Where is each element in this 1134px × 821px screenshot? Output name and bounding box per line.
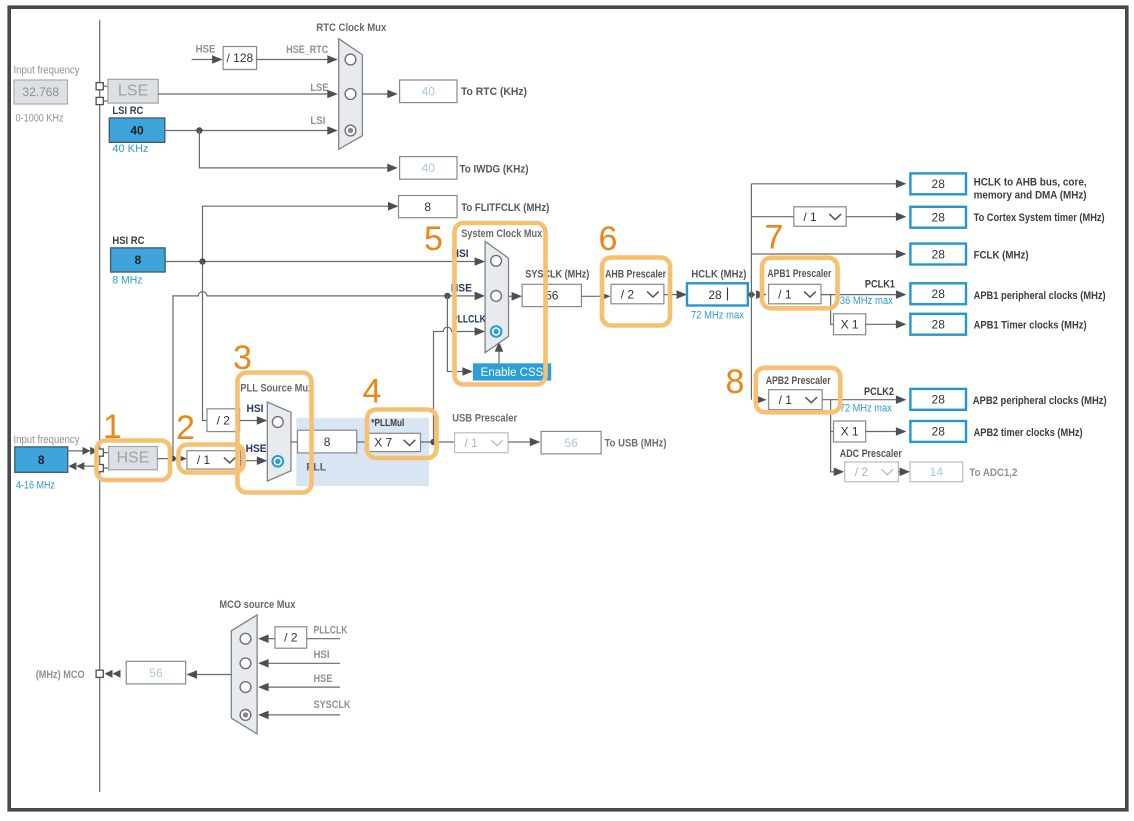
wire to cortex prescaler	[751, 216, 793, 218]
mux PLL Source Mux	[267, 402, 291, 481]
wire HSI to system mux	[165, 261, 475, 263]
pin square HSE top	[96, 449, 103, 456]
svg-text:Enable CSS: Enable CSS	[481, 367, 544, 379]
wire /2 to MCO mux	[269, 638, 276, 640]
wire PLLCLK to system mux	[434, 327, 476, 442]
wire LSI to RTC mux	[165, 130, 328, 132]
arrowhead PLLCLK into system mux	[475, 327, 486, 336]
svg-text:SYSCLK: SYSCLK	[314, 699, 351, 711]
wire APB2 down to X1 and ADC	[831, 400, 836, 472]
radio RTC mux HSE_RTC	[345, 54, 356, 65]
mux RTC Clock Mux	[339, 39, 363, 150]
svg-text:72 MHz max: 72 MHz max	[691, 309, 744, 321]
arrowhead PLLCLK into MCO mux	[258, 634, 269, 643]
svg-text:HSI RC: HSI RC	[112, 235, 144, 247]
arrowhead HSI into PLL mux	[257, 416, 268, 425]
svg-text:5: 5	[424, 220, 443, 258]
radio system mux HSE	[491, 291, 502, 302]
svg-text:Input frequency: Input frequency	[14, 65, 80, 77]
arrowhead APB2 timer output	[896, 427, 907, 436]
svg-text:28: 28	[932, 287, 946, 301]
arrowhead into To USB box	[530, 438, 541, 447]
arrowhead LSE into RTC mux	[327, 90, 338, 99]
box ADC output 14	[910, 462, 963, 482]
svg-text:HSI: HSI	[247, 403, 264, 415]
arrowhead ADC output	[900, 468, 911, 477]
svg-text:/ 1: / 1	[465, 436, 479, 450]
wire CSS arrow to mux bottom	[498, 349, 500, 364]
svg-text:LSI: LSI	[310, 115, 325, 127]
wire X1 to APB2 timer output	[866, 431, 897, 433]
multiplier X1 (APB1 timers)	[834, 314, 866, 335]
box HCLK output 28	[910, 173, 966, 194]
dropdown USB Prescaler /1 disabled	[455, 433, 509, 453]
svg-text:8 MHz: 8 MHz	[112, 275, 142, 287]
arrowhead into APB1 prescaler	[756, 290, 767, 299]
arrowhead crystal out 1	[68, 462, 76, 470]
svg-text:8: 8	[38, 453, 45, 467]
svg-text:HSE: HSE	[246, 443, 267, 455]
wire APB2 to outputs	[822, 399, 897, 401]
arrowhead MCO out 1	[105, 670, 113, 678]
dropdown APB2 Prescaler /1	[769, 390, 823, 410]
wire HSE pin stub top	[103, 452, 108, 454]
wire HSE out stub	[84, 465, 100, 467]
svg-text:/ 2: / 2	[855, 465, 869, 479]
svg-text:HSE: HSE	[314, 673, 333, 685]
highlight 3 PLL Source Mux	[238, 373, 312, 493]
highlight 6 AHB Prescaler	[602, 258, 670, 326]
wire LSE to RTC mux	[158, 93, 328, 95]
svg-text:28: 28	[932, 210, 946, 224]
junction diamond HCLK	[748, 291, 756, 299]
svg-text:SYSCLK (MHz): SYSCLK (MHz)	[525, 268, 589, 280]
svg-text:/ 2: / 2	[284, 631, 298, 645]
radio PLL mux HSE selected	[273, 456, 284, 467]
svg-text:*PLLMul: *PLLMul	[371, 417, 404, 429]
arrowhead FCLK output	[896, 250, 907, 259]
box APB1 peripheral output 28	[910, 283, 966, 304]
highlight 7 APB1 Prescaler	[762, 258, 838, 309]
mux MCO source Mux	[231, 615, 257, 734]
arrowhead APB1 timer output	[896, 320, 907, 329]
svg-text:APB1 Timer clocks (MHz): APB1 Timer clocks (MHz)	[974, 320, 1087, 332]
arrowhead MCO out 2	[113, 670, 121, 678]
junction PLLCLK	[430, 439, 436, 445]
arrowhead LSI into RTC mux	[327, 126, 338, 135]
svg-text:X 1: X 1	[841, 317, 859, 331]
svg-text:Input frequency: Input frequency	[14, 434, 80, 446]
svg-text:8: 8	[324, 435, 331, 449]
wire APB1 to outputs	[821, 294, 897, 296]
arrowhead HSE into PLL mux	[257, 456, 268, 465]
arrowhead HSE into MCO mux	[258, 683, 269, 692]
wire stub into X1 APB2	[831, 431, 834, 433]
radio MCO HSE	[240, 682, 251, 693]
svg-text:4: 4	[363, 373, 382, 411]
wire HSE stub to /128	[192, 59, 213, 61]
svg-text:FCLK (MHz): FCLK (MHz)	[974, 249, 1029, 261]
box To FLITFCLK value 8	[399, 196, 458, 218]
svg-text:72 MHz max: 72 MHz max	[840, 402, 892, 414]
wire ADC prescaler to output	[898, 471, 901, 473]
svg-text:8: 8	[726, 363, 745, 401]
box MCO value 56	[126, 661, 186, 684]
junction HSE to CSS	[444, 293, 450, 299]
radio MCO PLLCLK	[240, 633, 251, 644]
wire prediv to PLL mux	[241, 460, 259, 462]
dropdown APB1 Prescaler /1	[769, 284, 821, 304]
arrowhead into /128	[212, 55, 223, 64]
dropdown PLLMul X7	[367, 433, 421, 451]
wire X1 to APB1 timer output	[866, 323, 897, 325]
divider /2 (MCO)	[275, 627, 307, 648]
dropdown AHB Prescaler /2	[611, 284, 664, 304]
radio RTC mux LSE	[345, 89, 356, 100]
svg-text:X 7: X 7	[374, 436, 392, 450]
highlight 5 System Clock Mux	[455, 223, 546, 385]
svg-text:28: 28	[932, 425, 946, 439]
svg-text:40: 40	[130, 123, 144, 137]
svg-text:8: 8	[135, 253, 142, 267]
box HSE input frequency 8	[15, 447, 68, 472]
radio system mux HSI	[491, 255, 502, 266]
svg-text:56: 56	[149, 666, 163, 680]
wire HSE to MCO mux	[269, 686, 341, 688]
divider /128	[223, 47, 257, 70]
radio RTC mux LSI selected	[345, 125, 356, 136]
box APB2 timer output 28	[910, 421, 966, 442]
arrowhead HSI into MCO mux	[258, 659, 269, 668]
svg-text:/ 2: / 2	[217, 413, 231, 427]
svg-text:APB1 Prescaler: APB1 Prescaler	[767, 268, 832, 280]
box To USB value 56	[541, 431, 601, 454]
wire SYSCLK to MCO mux	[269, 714, 341, 716]
pin square LSE bottom	[96, 97, 103, 104]
arrowhead into APB2 prescaler	[756, 395, 767, 404]
wire HSE rail up and to system mux	[173, 292, 476, 459]
highlight 4 PLLMul	[367, 410, 437, 459]
svg-text:To Cortex System timer (MHz): To Cortex System timer (MHz)	[974, 212, 1105, 224]
radio MCO SYSCLK selected	[240, 710, 251, 721]
multiplier X1 (APB2 timers)	[834, 421, 866, 442]
svg-text:PCLK2: PCLK2	[864, 386, 894, 398]
mux System Clock Mux	[485, 241, 508, 352]
svg-text:USB Prescaler: USB Prescaler	[452, 413, 518, 425]
arrowhead into ADC prescaler	[834, 468, 845, 477]
svg-text:HCLK to AHB bus, core,: HCLK to AHB bus, core,	[974, 177, 1087, 189]
svg-text:LSE: LSE	[310, 82, 328, 94]
arrowhead into SYSCLK box	[512, 292, 522, 301]
junction HSI	[199, 258, 205, 264]
arrowhead SYSCLK into MCO mux	[258, 711, 269, 720]
svg-text:ADC Prescaler: ADC Prescaler	[840, 448, 903, 460]
wire PLLMul to USB prescaler	[421, 441, 455, 443]
arrowhead into To RTC box	[387, 90, 398, 99]
svg-text:/ 128: / 128	[226, 51, 253, 65]
svg-text:4-16 MHz: 4-16 MHz	[16, 480, 55, 492]
svg-text:/ 1: / 1	[803, 210, 817, 224]
wire APB1 down to X1	[831, 295, 834, 325]
wire LSE pin stub2	[103, 100, 108, 102]
svg-text:To IWDG (KHz): To IWDG (KHz)	[460, 163, 529, 175]
svg-text:/ 1: / 1	[778, 287, 792, 301]
box PLL input value 8	[298, 430, 357, 453]
arrowhead HCLK output	[896, 180, 907, 189]
svg-text:PLLCLK: PLLCLK	[314, 625, 348, 637]
arrowhead crystal in 2	[90, 447, 98, 455]
wire HSE to Enable CSS	[447, 296, 463, 372]
svg-text:LSI RC: LSI RC	[112, 105, 143, 117]
svg-text:HSE_RTC: HSE_RTC	[286, 44, 328, 56]
svg-text:APB2 peripheral clocks (MHz): APB2 peripheral clocks (MHz)	[973, 395, 1107, 407]
svg-text:28: 28	[932, 177, 946, 191]
svg-text:32.768: 32.768	[22, 85, 59, 99]
svg-text:56: 56	[564, 436, 578, 450]
box To IWDG value 40	[400, 157, 457, 180]
box FCLK output 28	[910, 244, 966, 265]
svg-text:28: 28	[708, 288, 722, 302]
wire /2 to PLL mux	[240, 420, 258, 422]
dropdown Cortex prescaler /1	[794, 207, 846, 227]
svg-text:HSE: HSE	[196, 44, 216, 56]
svg-text:28: 28	[932, 393, 946, 407]
svg-text:36 MHz max: 36 MHz max	[840, 295, 893, 307]
svg-text:2: 2	[176, 409, 195, 447]
svg-text:PLL Source Mux: PLL Source Mux	[240, 383, 314, 395]
arrowhead into Enable CSS	[462, 367, 473, 376]
wire HSE in stub	[68, 450, 83, 452]
wire HSI to MCO mux	[269, 662, 341, 664]
box HCLK value 28 (editable)	[687, 283, 748, 305]
wire HSE box to prediv	[157, 458, 176, 460]
highlight 8 APB2 Prescaler	[756, 368, 841, 413]
svg-text:System Clock Mux: System Clock Mux	[461, 228, 543, 240]
wire PLL box to PLLMul	[357, 441, 367, 443]
pin square LSE top	[96, 83, 103, 90]
main left vertical rail	[99, 20, 101, 792]
radio system mux PLLCLK selected	[491, 326, 502, 337]
arrowhead into To IWDG box	[387, 164, 398, 173]
box HSI RC 8	[111, 248, 166, 272]
svg-text:(MHz) MCO: (MHz) MCO	[36, 669, 85, 681]
wire LSE pin stubs	[103, 85, 108, 87]
svg-text:14: 14	[930, 465, 944, 479]
svg-text:APB2 timer clocks (MHz): APB2 timer clocks (MHz)	[974, 427, 1083, 439]
arrowhead APB2 peripheral output	[896, 395, 907, 404]
arrowhead into HCLK box	[677, 290, 688, 299]
junction LSI	[196, 127, 202, 133]
svg-text:To USB (MHz): To USB (MHz)	[605, 438, 667, 450]
pin square MCO	[96, 670, 103, 677]
svg-text:RTC Clock Mux: RTC Clock Mux	[316, 22, 387, 34]
wire to HCLK output	[751, 183, 896, 185]
divider /2 (HSI to PLL)	[207, 409, 240, 432]
button Enable CSS	[473, 363, 551, 380]
svg-text:HSE: HSE	[116, 449, 149, 466]
highlight 1 HSE	[97, 441, 171, 481]
wire SYSCLK to AHB prescaler	[581, 295, 601, 297]
svg-text:AHB Prescaler: AHB Prescaler	[605, 268, 667, 280]
box LSE input frequency 32.768	[14, 80, 68, 104]
box APB2 peripheral output 28	[910, 389, 966, 410]
dropdown ADC Prescaler /2 disabled	[845, 462, 899, 482]
svg-text:PLLCLK: PLLCLK	[452, 314, 486, 326]
wire system mux to SYSCLK box	[509, 295, 514, 297]
pin square HSE bottom	[96, 465, 103, 472]
radio MCO HSI	[240, 658, 251, 669]
svg-text:28: 28	[932, 247, 946, 261]
highlight 2 HSE PreDiv	[179, 445, 244, 473]
svg-text:HCLK (MHz): HCLK (MHz)	[691, 268, 746, 280]
wire RTC mux output	[362, 93, 388, 95]
svg-text:0-1000 KHz: 0-1000 KHz	[16, 113, 64, 125]
wire HCLK distribution rail	[750, 184, 752, 400]
wire cortex prescaler to output	[846, 216, 897, 218]
arrowhead HSI into system mux	[475, 257, 486, 266]
wire MCO mux output	[196, 674, 231, 676]
wire HSI to FLITFCLK	[203, 206, 390, 261]
box LSI RC 40	[109, 118, 165, 142]
svg-text:/ 1: / 1	[779, 393, 793, 407]
arrowhead HSE_RTC into RTC mux	[327, 55, 338, 64]
arrowhead HSE into system mux	[475, 292, 486, 301]
wire HSE pin stub bottom	[103, 467, 108, 469]
svg-text:28: 28	[932, 317, 946, 331]
svg-text:LSE: LSE	[118, 82, 148, 99]
svg-text:To RTC (KHz): To RTC (KHz)	[461, 86, 527, 98]
junction HSE prediv	[170, 456, 176, 462]
box SYSCLK value 56	[522, 284, 581, 306]
svg-text:/ 2: / 2	[621, 287, 635, 301]
arrowhead into FLITFCLK box	[388, 202, 399, 211]
svg-text:PCLK1: PCLK1	[865, 278, 895, 290]
wire PLLCLK into /2	[307, 638, 340, 640]
svg-text:7: 7	[765, 219, 784, 257]
svg-text:40: 40	[422, 85, 436, 99]
wire to FCLK output	[751, 253, 896, 255]
svg-text:40: 40	[422, 161, 436, 175]
svg-text:HSI: HSI	[314, 649, 330, 661]
wire HSI down to PLL /2	[203, 262, 208, 421]
svg-text:To FLITFCLK (MHz): To FLITFCLK (MHz)	[461, 202, 549, 214]
box Cortex timer output 28	[910, 207, 966, 228]
box HSE oscillator	[109, 447, 158, 470]
arrowhead crystal out 2	[76, 462, 84, 470]
arrowhead cortex output	[896, 212, 907, 221]
svg-text:MCO source Mux: MCO source Mux	[219, 599, 296, 611]
arrowhead crystal in 1	[83, 447, 91, 455]
svg-text:memory and DMA (MHz): memory and DMA (MHz)	[974, 189, 1087, 201]
svg-text:40 KHz: 40 KHz	[112, 143, 148, 155]
arrowhead into MCO value box	[187, 670, 198, 679]
svg-text:X 1: X 1	[841, 425, 859, 439]
arrowhead into HSE prediv	[176, 454, 187, 463]
wire /128 to RTC mux	[257, 59, 329, 61]
svg-text:8: 8	[424, 200, 431, 214]
wire AHB to HCLK box	[664, 294, 679, 296]
radio PLL mux HSI	[272, 417, 283, 428]
arrowhead into AHB prescaler	[600, 292, 611, 301]
dropdown HSE PreDiv /1	[187, 451, 241, 469]
svg-text:/ 1: / 1	[197, 453, 211, 467]
svg-text:6: 6	[599, 220, 618, 258]
svg-text:APB1 peripheral clocks (MHz): APB1 peripheral clocks (MHz)	[974, 290, 1106, 302]
svg-text:APB2 Prescaler: APB2 Prescaler	[766, 375, 832, 387]
wire PLL mux output to input box	[291, 441, 298, 443]
svg-text:To ADC1,2: To ADC1,2	[969, 467, 1017, 479]
wire USB prescaler to output	[508, 441, 532, 443]
wire LSI to IWDG	[199, 131, 388, 168]
PLL block background	[296, 418, 429, 486]
arrowhead APB1 peripheral output	[896, 290, 907, 299]
box APB1 timer output 28	[910, 314, 966, 335]
box LSE oscillator	[108, 79, 158, 103]
arrowhead CSS up into mux	[495, 341, 504, 352]
box To RTC value 40	[400, 80, 457, 103]
